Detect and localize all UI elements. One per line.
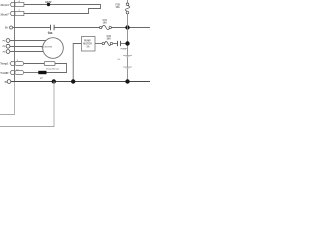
connector J1-2 housing box	[15, 11, 24, 15]
node dot main line x73	[71, 79, 75, 83]
wire pump right lead	[95, 43, 102, 45]
svg-text:30cnt7: 30cnt7	[0, 12, 9, 16]
svg-text:ptl: ptl	[40, 76, 43, 79]
svg-text:MOTOR: MOTOR	[83, 43, 92, 45]
wire cap to bus	[121, 43, 128, 45]
wire row B horizontal y13.7	[24, 13, 89, 15]
svg-text:30A: 30A	[107, 38, 112, 41]
pump motor box	[82, 37, 96, 52]
connector Temp1 capsule	[15, 62, 24, 66]
connector J1-1 housing box	[15, 2, 24, 6]
node top junction dot	[47, 3, 50, 6]
node dot main line x53.8	[52, 79, 56, 83]
svg-text:PUMP: PUMP	[84, 40, 91, 42]
terminal P1 circle	[6, 39, 10, 43]
terminal P2 circle	[6, 44, 10, 48]
wire diode to loop	[47, 72, 67, 74]
svg-text:15A: 15A	[116, 6, 121, 9]
svg-text:B+: B+	[5, 26, 9, 30]
terminal P3 circle	[6, 50, 10, 54]
wire right bus	[127, 14, 129, 82]
wire main ground line	[11, 81, 150, 83]
fuse FU2 body	[102, 42, 104, 44]
svg-text:Temp1: Temp1	[0, 62, 9, 66]
wire row B+ y27.5	[13, 27, 50, 29]
svg-text:T-GND: T-GND	[0, 71, 8, 75]
wire staircase A to B	[89, 5, 101, 14]
fuse FU3 vertical body	[127, 0, 129, 3]
svg-text:AC MOTOR: AC MOTOR	[41, 46, 52, 49]
splice bar 1 on right bus	[123, 55, 132, 57]
motor M1 circle	[43, 38, 64, 59]
connector Temp1 pentagon	[10, 61, 14, 65]
wire tgnd row	[24, 72, 40, 74]
node dot main line x127.5	[125, 79, 129, 83]
svg-text:Fan: Fan	[48, 32, 53, 35]
node bus dot at row 43	[125, 41, 129, 45]
svg-text:Temp Sensor: Temp Sensor	[46, 68, 59, 71]
svg-text:10A: 10A	[103, 21, 108, 24]
connector J1-2 pentagon	[10, 11, 14, 15]
wire motor lead 1	[10, 40, 46, 42]
connector T-GND capsule	[15, 71, 24, 75]
wire motor lead 3	[10, 51, 44, 53]
wire resistor to loop	[55, 64, 67, 73]
connector J1-1 pentagon	[10, 2, 14, 6]
terminal B+ circle	[10, 26, 13, 29]
svg-text:5A: 5A	[87, 45, 90, 48]
wire fuse to cap	[113, 43, 117, 45]
svg-text:PUMP: PUMP	[121, 48, 128, 50]
wire bottom L from dot	[0, 82, 54, 127]
resistor temp sensor body	[44, 62, 55, 66]
fuse FU1 body	[100, 26, 102, 28]
node bus dot at row 27.5	[125, 25, 129, 29]
wire row A horizontal y4.5	[24, 4, 101, 6]
wire pump left lead	[73, 44, 81, 82]
wire motor lead 2	[10, 46, 43, 48]
connector T-GND pentagon	[10, 70, 14, 74]
wire left vertical bus	[14, 0, 16, 82]
diode D1 body	[38, 71, 46, 74]
svg-text:GN: GN	[117, 59, 121, 61]
svg-text:A12V: A12V	[45, 0, 52, 4]
splice bar 2 on right bus	[123, 66, 132, 68]
capacitor C2 plates	[118, 41, 121, 46]
wire left bus lower L to edge	[0, 82, 15, 115]
terminal B- circle	[7, 80, 11, 84]
capacitor C1 plates	[51, 25, 55, 31]
svg-text:30cnt4: 30cnt4	[0, 3, 9, 7]
wire temp row	[24, 63, 45, 65]
